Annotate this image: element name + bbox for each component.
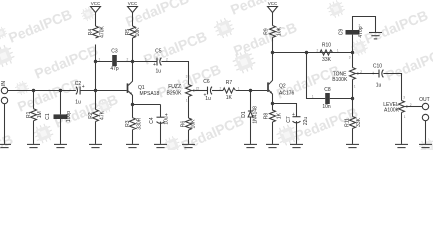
wire C10 to level corner — [383, 74, 401, 101]
ground R3 — [126, 144, 139, 150]
wire in sleeve drop — [4, 104, 6, 144]
svg-text:R7: R7 — [226, 80, 233, 86]
ground C4 — [154, 144, 167, 150]
svg-text:2: 2 — [198, 86, 200, 90]
resistor R2 — [93, 110, 99, 122]
power VCC3 — [268, 7, 278, 13]
svg-text:1: 1 — [312, 94, 314, 98]
junction R1 / input rail — [32, 89, 35, 92]
wire input rail left — [8, 90, 76, 92]
junction R10 right / C9 / TONE top — [351, 51, 354, 54]
svg-text:1K: 1K — [276, 112, 282, 119]
svg-text:C1: C1 — [45, 113, 51, 120]
wire out sleeve drop — [425, 121, 427, 144]
svg-text:+: + — [153, 62, 156, 68]
svg-text:3: 3 — [186, 75, 188, 79]
svg-text:MPSA18: MPSA18 — [140, 91, 160, 97]
svg-text:R6: R6 — [181, 121, 187, 128]
svg-text:C5: C5 — [155, 49, 162, 55]
ground R1 — [27, 144, 40, 150]
wire fuzz wiper to C6 — [194, 90, 207, 92]
svg-text:10n: 10n — [322, 104, 331, 110]
wire C9 top to ground — [353, 17, 376, 33]
svg-text:C6: C6 — [203, 79, 210, 85]
resistor R1 — [31, 109, 37, 121]
ground R11 — [346, 144, 359, 150]
resistor R10 — [320, 50, 333, 55]
resistor R11 — [350, 117, 356, 129]
wire R7 to Q2 base — [236, 90, 267, 92]
svg-text:1: 1 — [186, 99, 188, 103]
ground C1 — [54, 144, 67, 150]
svg-text:1M: 1M — [37, 111, 43, 118]
capacitor C8 — [325, 93, 330, 104]
svg-text:22u: 22u — [303, 117, 309, 126]
svg-text:+: + — [165, 113, 168, 119]
svg-text:10K: 10K — [276, 26, 282, 36]
svg-text:C8: C8 — [324, 87, 331, 93]
ground input jack — [0, 144, 11, 150]
svg-text:33K: 33K — [322, 57, 332, 63]
svg-text:1: 1 — [354, 85, 356, 89]
wire R1 drop — [33, 91, 35, 109]
wire C9 to tone node — [352, 35, 354, 53]
svg-text:C7: C7 — [286, 116, 292, 123]
capacitor C3 — [112, 55, 117, 66]
svg-text:VCC: VCC — [268, 1, 278, 6]
svg-text:PedalPCB: PedalPCB — [362, 7, 430, 47]
power VCC2 — [128, 7, 138, 13]
ground C9 — [369, 33, 382, 39]
svg-text:+: + — [82, 84, 85, 90]
resistor R6 — [186, 118, 192, 130]
svg-text:1: 1 — [337, 49, 339, 53]
svg-text:FUZZ: FUZZ — [168, 84, 181, 90]
svg-text:470p: 470p — [358, 26, 364, 37]
wire Q1 emitter rail — [133, 104, 161, 106]
svg-text:2: 2 — [127, 58, 129, 62]
junction D1 / Q2 base — [249, 89, 252, 92]
resistor R7 — [223, 88, 236, 93]
transistor Q1 — [127, 83, 129, 93]
junction TONE bottom / C8 / R11 — [351, 97, 354, 100]
schematic ink — [0, 7, 432, 151]
svg-text:1: 1 — [145, 58, 147, 62]
svg-text:1u: 1u — [75, 100, 81, 106]
wire collector node to C5 — [133, 61, 158, 63]
svg-text:1u: 1u — [156, 69, 162, 75]
svg-text:R3: R3 — [125, 120, 131, 127]
ground C7 — [290, 144, 303, 150]
capacitor C4 — [157, 116, 165, 118]
svg-text:R4: R4 — [88, 29, 94, 36]
wire C1 drop — [60, 91, 62, 115]
resistor R9 — [270, 26, 276, 38]
svg-text:470K: 470K — [99, 26, 105, 38]
svg-text:2: 2 — [220, 87, 222, 91]
svg-text:C9: C9 — [339, 29, 345, 36]
svg-text:1K: 1K — [226, 95, 233, 101]
resistor R5 — [130, 26, 136, 38]
wire C8 to tone node — [330, 98, 353, 100]
svg-text:3: 3 — [349, 56, 351, 60]
svg-text:1N4148: 1N4148 — [253, 106, 259, 124]
svg-text:Q2: Q2 — [279, 84, 286, 90]
diode D1 — [248, 110, 253, 112]
svg-text:2: 2 — [166, 58, 168, 62]
wire Q2 emitter rail — [273, 104, 297, 117]
svg-text:B100K: B100K — [332, 77, 348, 83]
svg-text:C3: C3 — [111, 49, 118, 55]
svg-text:33K: 33K — [356, 117, 362, 127]
wire node B vertical — [95, 45, 97, 110]
wire level wiper to out — [407, 106, 423, 108]
junction Q2 emitter / R8 / C7 — [271, 102, 274, 105]
svg-text:R11: R11 — [344, 118, 350, 127]
svg-text:R8: R8 — [264, 113, 270, 120]
resistor R4 — [93, 26, 99, 38]
junction R2-R4 divider node — [94, 89, 97, 92]
svg-text:PedalPCB: PedalPCB — [383, 44, 433, 84]
svg-text:A100K: A100K — [384, 108, 400, 114]
wire tone pot top — [352, 53, 354, 68]
svg-text:330R: 330R — [137, 117, 143, 129]
capacitor C5 — [156, 58, 158, 66]
capacitor C1 — [54, 114, 68, 119]
ground D1 — [244, 144, 257, 150]
svg-text:C2: C2 — [75, 81, 82, 87]
connector OUT jack — [422, 103, 428, 109]
svg-text:1u: 1u — [376, 83, 382, 89]
svg-text:AC176: AC176 — [279, 91, 295, 97]
svg-text:47p: 47p — [110, 66, 119, 72]
capacitor C6 — [207, 87, 209, 95]
ground LEVEL — [395, 144, 408, 150]
svg-text:VCC: VCC — [91, 1, 101, 6]
capacitor C9 — [346, 30, 360, 35]
wire tone pot bottom — [352, 80, 354, 117]
transistor Q2 — [267, 82, 269, 92]
junction C3 left / divider branch — [94, 60, 97, 63]
svg-text:10K: 10K — [135, 27, 141, 37]
potentiometer FUZZ — [186, 85, 192, 97]
svg-text:OUT: OUT — [419, 97, 430, 103]
svg-text:IN: IN — [1, 81, 7, 86]
ground R2 — [89, 144, 102, 150]
svg-text:R9: R9 — [264, 28, 270, 35]
potentiometer TONE — [350, 68, 356, 80]
svg-text:C4: C4 — [149, 117, 155, 124]
junction Q2 collector / R9 / R10 — [271, 51, 274, 54]
svg-text:R10: R10 — [322, 42, 331, 48]
wire tone wiper to C10 — [358, 73, 379, 75]
wire C8 branch — [307, 53, 326, 99]
svg-text:PedalPCB: PedalPCB — [228, 0, 296, 18]
svg-text:47K: 47K — [100, 110, 106, 120]
svg-text:1: 1 — [404, 115, 406, 119]
svg-text:10K: 10K — [191, 119, 197, 129]
svg-text:R2: R2 — [88, 112, 94, 119]
svg-text:+: + — [292, 112, 295, 118]
wire upper miller left — [96, 61, 113, 63]
junction R10 left / C8 branch — [305, 51, 308, 54]
wire C3 to collector node — [117, 61, 133, 63]
ground R6 — [182, 144, 195, 150]
text labels layer — [1, 1, 429, 130]
svg-text:R5: R5 — [125, 29, 131, 36]
svg-text:1: 1 — [99, 58, 101, 62]
capacitor C2 — [76, 87, 78, 95]
pin number texts — [99, 24, 412, 120]
capacitor C10 — [378, 70, 380, 78]
ground OUT jack — [419, 144, 432, 150]
svg-text:100p: 100p — [66, 111, 72, 122]
resistor R8 — [270, 110, 276, 122]
svg-text:C10: C10 — [373, 64, 382, 70]
svg-text:R1: R1 — [26, 111, 32, 118]
watermark layer — [0, 0, 433, 171]
connector IN jack — [1, 87, 7, 93]
svg-text:D1: D1 — [241, 111, 247, 118]
svg-text:VCC: VCC — [128, 1, 138, 6]
junction Q1 collector / C3 / C5 — [131, 60, 134, 63]
junction C1 / input rail — [59, 89, 62, 92]
svg-text:2: 2 — [317, 49, 319, 53]
svg-text:+: + — [372, 71, 375, 77]
svg-text:B250K: B250K — [166, 90, 182, 96]
wire Q1 collector up — [132, 38, 134, 62]
wire level bottom — [401, 113, 403, 144]
wire C6 to R7 — [212, 90, 223, 92]
wire input rail right of C2 — [80, 90, 127, 92]
resistor R3 — [130, 118, 136, 130]
wire R8 drop — [272, 104, 274, 111]
svg-text:1: 1 — [238, 87, 240, 91]
capacitor C7 — [293, 116, 301, 118]
svg-text:3: 3 — [403, 96, 405, 100]
svg-text:PedalPCB: PedalPCB — [32, 42, 100, 82]
wire C5 to fuzz corner — [161, 62, 188, 85]
svg-text:2: 2 — [359, 24, 361, 28]
svg-text:2: 2 — [410, 103, 412, 107]
wire Q2 collector rail — [273, 52, 353, 54]
svg-text:PedalPCB: PedalPCB — [6, 6, 74, 46]
wire D1 drop — [250, 91, 252, 112]
junction Q1 emitter / R3 / C4 — [131, 103, 134, 106]
svg-text:2: 2 — [360, 70, 362, 74]
svg-text:+: + — [204, 93, 207, 99]
potentiometer LEVEL — [399, 101, 405, 113]
ground R8 — [266, 144, 279, 150]
power VCC1 — [91, 7, 101, 13]
